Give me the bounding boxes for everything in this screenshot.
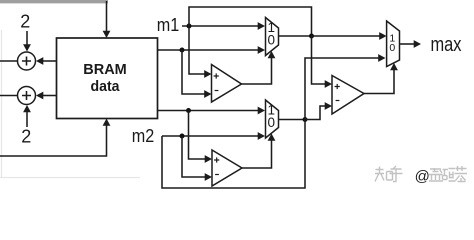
wire: BRAM to adder A2: [43, 95, 57, 97]
svg-text:BRAM: BRAM: [83, 61, 127, 78]
wire: BRAM out B down to comparator C2 + input: [189, 111, 206, 160]
wire: BRAM out A down to comparator C1 - input: [182, 50, 205, 94]
wire: comparator C2 output to mux M2 select: [242, 140, 272, 169]
watermark zhihu: [375, 166, 467, 182]
BRAM data block: [57, 38, 158, 119]
svg-text:data: data: [91, 78, 121, 95]
svg-text:max: max: [431, 34, 462, 56]
faint screenshot border left: [0, 30, 140, 178]
svg-text:@: @: [415, 168, 430, 185]
svg-text:m2: m2: [132, 126, 155, 146]
wire: m1 to mux M1 input 1: [182, 25, 259, 27]
wire: mux M1 output to junction: [279, 35, 312, 37]
adder A2: [18, 87, 36, 105]
svg-text:2: 2: [21, 127, 31, 147]
wire: m2 feedback loop bottom: [162, 120, 305, 189]
wire: BRAM out A to mux M1 input 0: [158, 49, 260, 51]
svg-text:m1: m1: [157, 15, 180, 35]
node BRAM out A junction: [180, 48, 185, 53]
svg-text:2: 2: [20, 11, 30, 31]
mux M3: [387, 21, 400, 67]
wire: feedback from BRAM input top (clipped at image top): [0, 0, 108, 3]
wire: mux M3 output to max: [400, 43, 415, 45]
node mux M2 output junction: [303, 117, 308, 122]
wire: BRAM out B to mux M2 input 1: [158, 110, 260, 112]
node BRAM out B junction: [186, 108, 191, 113]
wire: junction down to comparator C3 + input: [312, 36, 326, 84]
wire: constant 2 into adder A2: [26, 110, 28, 127]
node mux M1 output junction: [309, 34, 314, 39]
wire: adder A1 output left: [0, 60, 17, 62]
wire: junction to mux M3 input 1: [312, 35, 381, 37]
wire: junction to comparator C3 - input: [305, 106, 325, 120]
comparator C1: [212, 65, 242, 103]
mux M2: [266, 100, 279, 138]
wire: adder A2 output left: [0, 95, 17, 97]
node m2 junction: [180, 134, 185, 139]
wire: bottom write-back into BRAM: [0, 124, 107, 157]
wire: m2 down to comparator C2 - input: [182, 136, 205, 177]
wire: m1 feedback from mux M1 output: [189, 7, 312, 36]
comparator C2: [212, 150, 242, 186]
svg-text:0: 0: [268, 33, 276, 48]
wire: junction up to mux M3 input 0: [305, 58, 379, 120]
mux M1: [266, 18, 279, 56]
wire: BRAM to adder A1: [43, 60, 57, 62]
comparator C3: [332, 76, 364, 115]
svg-text:0: 0: [389, 42, 395, 54]
svg-text:0: 0: [268, 115, 276, 130]
wire: mux M2 output to junction: [279, 119, 306, 121]
wire: constant 2 into adder A1: [26, 31, 28, 46]
adder A1: [18, 52, 36, 70]
wire: comparator C1 output to mux M1 select: [242, 57, 272, 84]
wire: m2 to mux M2 input 0: [162, 135, 259, 137]
node m1 junction: [187, 24, 192, 29]
wire: comparator C3 output to mux M3 select: [364, 69, 394, 94]
wire: m1 down to comparator C1 + input: [189, 26, 205, 74]
